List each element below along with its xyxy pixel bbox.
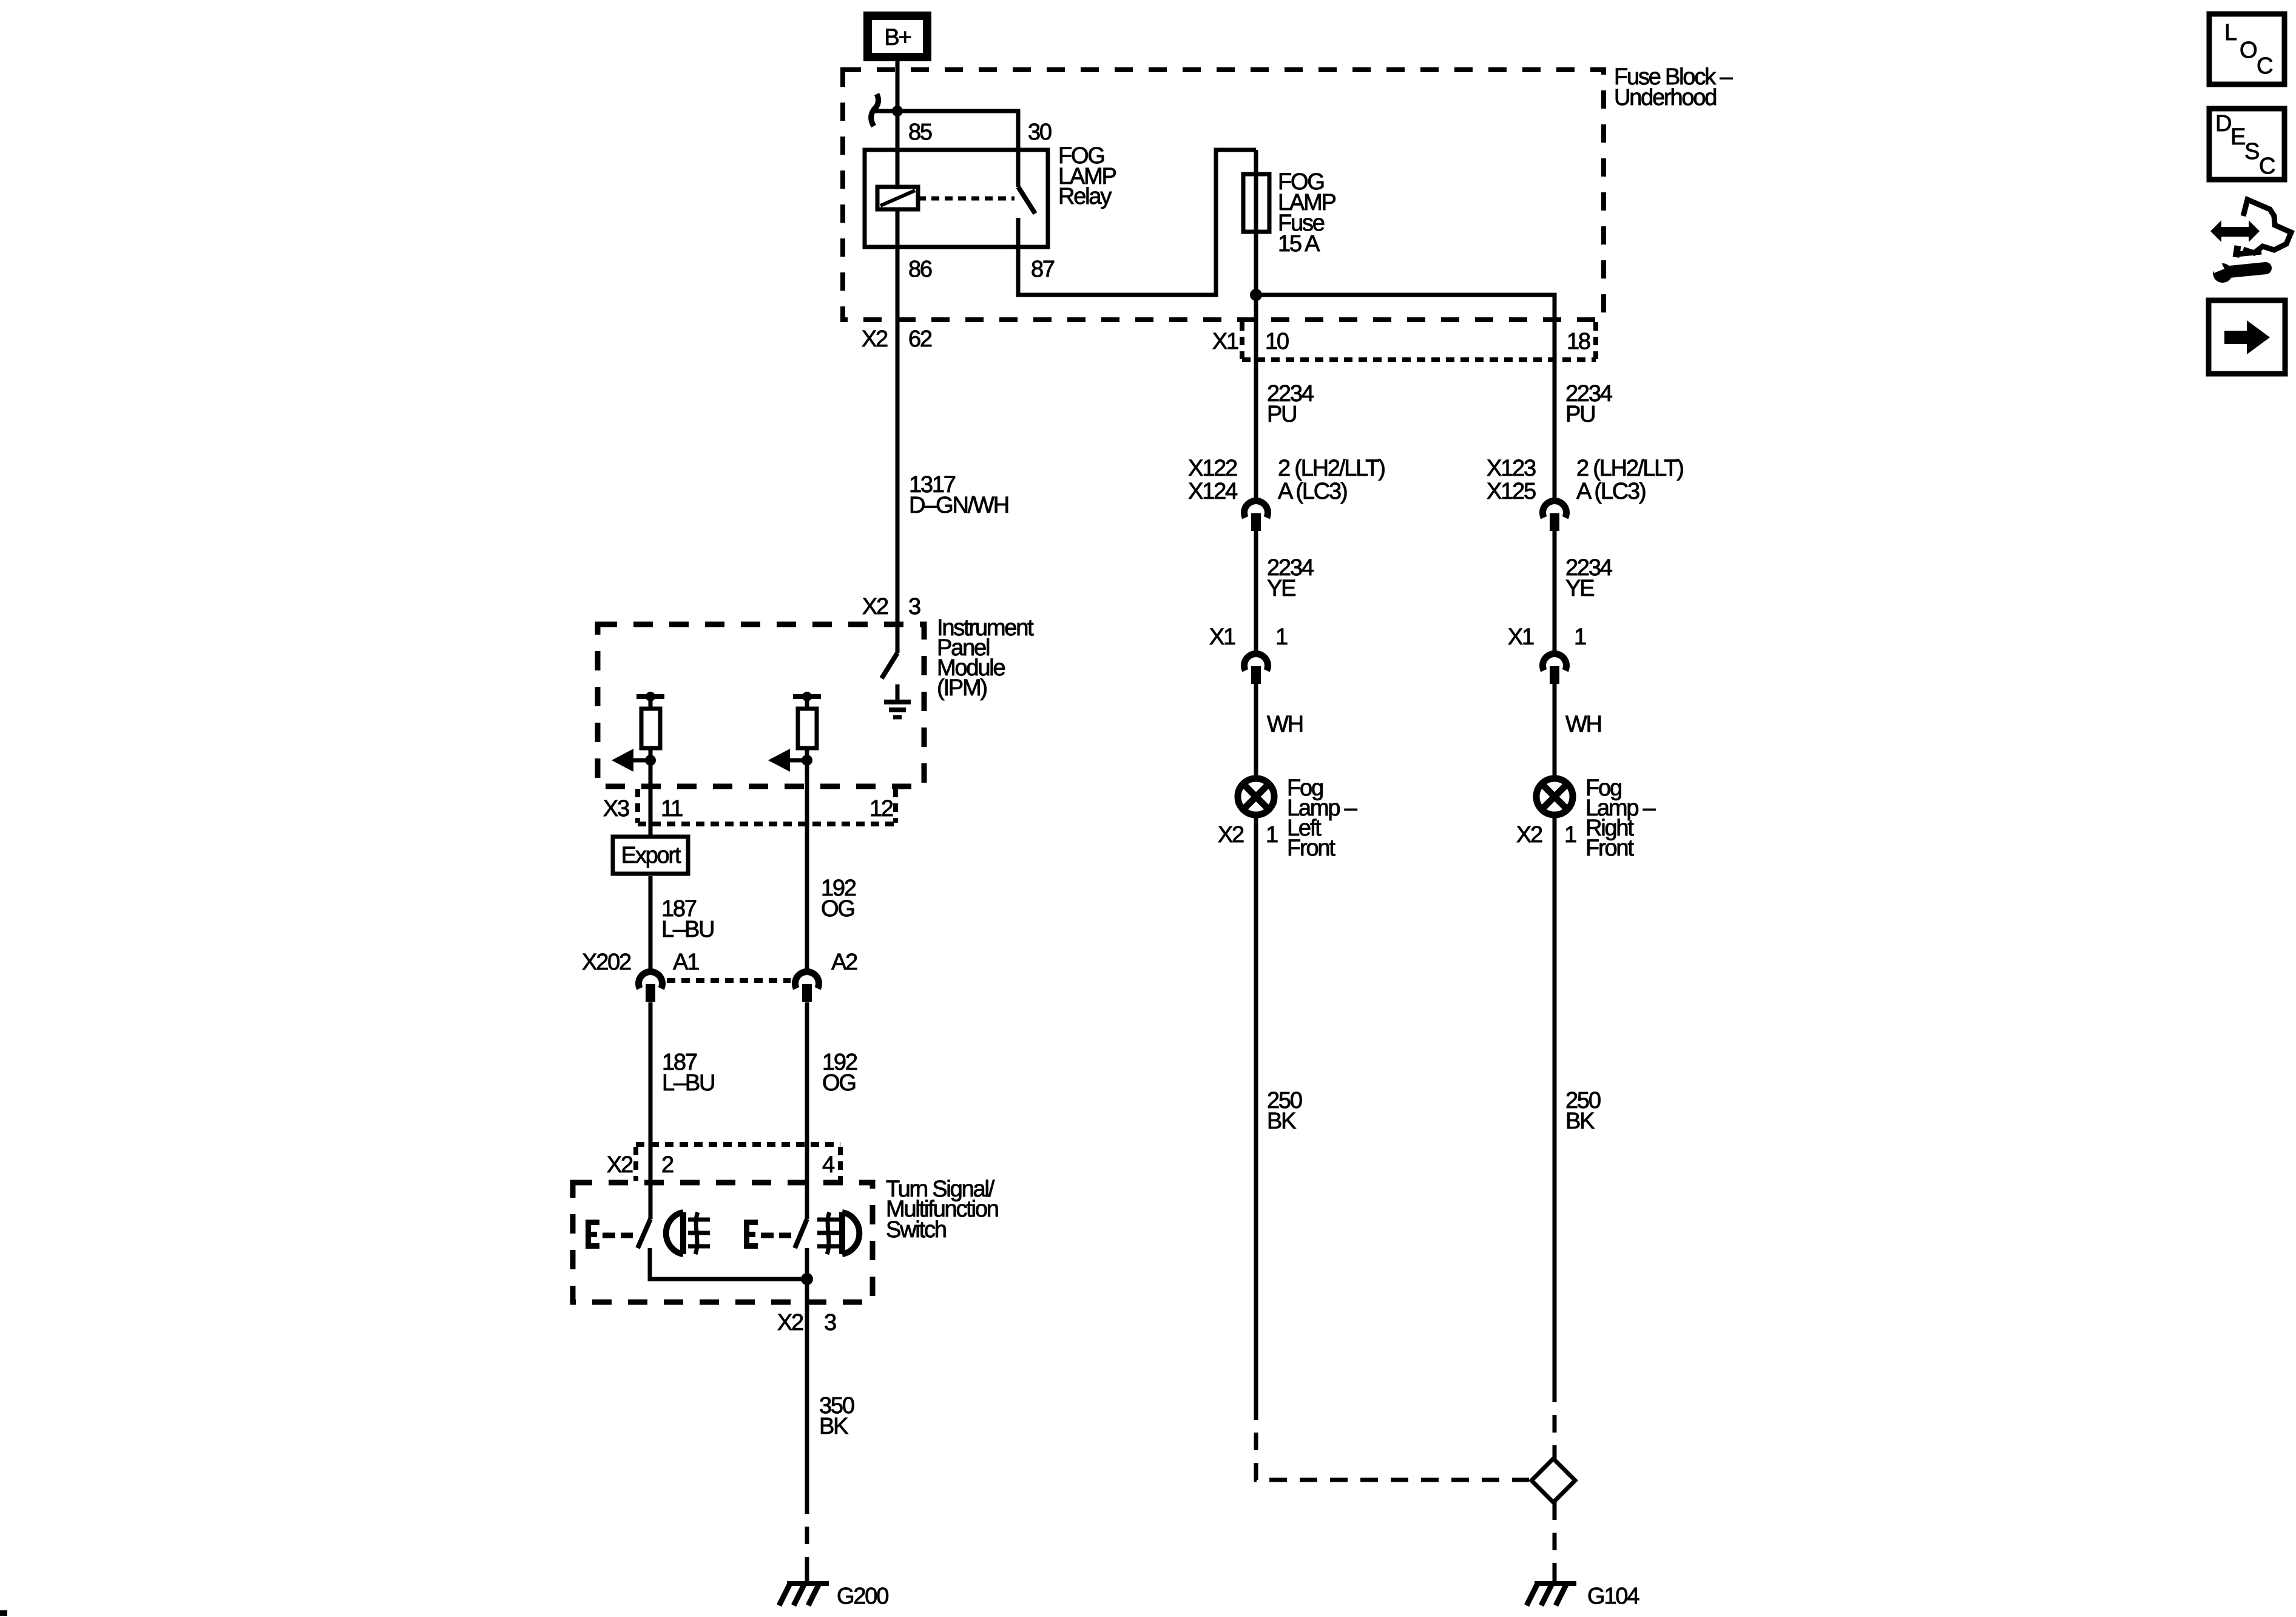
svg-text:C: C bbox=[2257, 53, 2272, 79]
svg-text:62: 62 bbox=[908, 326, 932, 352]
icon service clip bbox=[2236, 246, 2261, 257]
pin labels 2 (LH2/LLT) A (LC3) left front bbox=[1278, 456, 1385, 504]
icon service wrench bbox=[2210, 259, 2266, 283]
wire R2 to junction bbox=[805, 748, 809, 760]
svg-text:1: 1 bbox=[1574, 624, 1586, 650]
wire label 187 L-BU upper bbox=[661, 896, 714, 942]
connector labels X2 3 above IPM bbox=[862, 594, 920, 619]
switch blade left bbox=[638, 1219, 650, 1248]
wire label 192 OG upper bbox=[821, 876, 856, 922]
pin labels 2 (LH2/LLT) A (LC3) right front bbox=[1576, 456, 1683, 504]
junction node A bbox=[645, 755, 656, 766]
label Turn Signal/Multifunction Switch bbox=[886, 1176, 998, 1243]
dashed actuator link right bbox=[761, 1233, 791, 1238]
svg-text:Underhood: Underhood bbox=[1614, 85, 1716, 110]
connector X122/X124 left front bbox=[1244, 501, 1268, 531]
wire label 1317 D-GN/WH bbox=[909, 472, 1008, 518]
svg-text:C: C bbox=[2259, 154, 2275, 179]
connector labels X2 3 below switch bbox=[777, 1310, 836, 1335]
wire 250 BK right front bbox=[1553, 815, 1557, 1385]
svg-text:G200: G200 bbox=[837, 1584, 888, 1609]
svg-text:S: S bbox=[2244, 139, 2259, 164]
svg-text:PU: PU bbox=[1267, 402, 1296, 427]
svg-text:X3: X3 bbox=[603, 796, 629, 822]
svg-text:85: 85 bbox=[908, 120, 932, 145]
wire circuit 2234 PU left front bbox=[1254, 295, 1258, 499]
ground G104 bbox=[1527, 1574, 1576, 1605]
wire label 350 BK bbox=[819, 1393, 854, 1439]
connector labels X1 1 right front bbox=[1508, 624, 1586, 650]
connector row X3 pins 11 and 12 bbox=[603, 789, 898, 824]
fog lamp Left front bbox=[1238, 778, 1274, 815]
connector X202 dashed link bbox=[667, 978, 791, 983]
svg-text:WH: WH bbox=[1267, 712, 1303, 737]
svg-text:A (LC3): A (LC3) bbox=[1278, 479, 1347, 504]
fuse FOG LAMP Fuse 15 A bbox=[1243, 150, 1269, 295]
wire Export down to connector A1 bbox=[649, 876, 653, 970]
svg-text:BK: BK bbox=[1565, 1109, 1595, 1134]
svg-text:X2: X2 bbox=[1218, 822, 1244, 848]
label Instrument Panel Module (IPM) bbox=[937, 615, 1034, 701]
connector row X2 pins 2 and 4 bbox=[607, 1144, 840, 1181]
svg-text:3: 3 bbox=[824, 1310, 836, 1335]
svg-text:A (LC3): A (LC3) bbox=[1576, 479, 1646, 504]
label FOG LAMP Relay bbox=[1058, 143, 1116, 209]
power symbol B+ bbox=[863, 12, 931, 61]
svg-text:12: 12 bbox=[869, 796, 893, 822]
svg-text:X1: X1 bbox=[1209, 624, 1235, 650]
label Fuse Block - Underhood bbox=[1614, 64, 1733, 110]
instrument panel module IPM dashed box bbox=[598, 624, 924, 786]
svg-text:Switch: Switch bbox=[886, 1217, 946, 1243]
wire fuse output to right branch bbox=[1256, 295, 1555, 499]
connector X123/X125 right front bbox=[1543, 501, 1567, 531]
output arrow left from node B bbox=[768, 749, 807, 772]
wire circuit 2234 PU right front bbox=[1553, 295, 1557, 499]
connector labels X123 X125 bbox=[1487, 456, 1536, 504]
label Fog Lamp - Left Front bbox=[1287, 775, 1358, 861]
dashed wire left lamp to splice bbox=[1256, 1402, 1529, 1480]
svg-text:Relay: Relay bbox=[1058, 184, 1112, 209]
wire 250 BK left front bbox=[1254, 815, 1258, 1402]
svg-text:1: 1 bbox=[1564, 822, 1576, 848]
wire label 2234 PU right front bbox=[1565, 381, 1613, 427]
splice diamond bbox=[1531, 1459, 1575, 1502]
bus tap hook symbol bbox=[871, 94, 879, 126]
wire from B+ down to relay coil bbox=[896, 61, 900, 189]
svg-text:L: L bbox=[2224, 20, 2237, 46]
connector labels X1 1 left front bbox=[1209, 624, 1288, 650]
icon service double arrow bbox=[2210, 220, 2260, 242]
svg-text:X2: X2 bbox=[777, 1310, 803, 1335]
svg-text:X122: X122 bbox=[1188, 456, 1237, 481]
connector labels X2 1 right front bbox=[1516, 822, 1576, 848]
junction node B bbox=[802, 755, 812, 766]
svg-text:YE: YE bbox=[1565, 576, 1594, 601]
wire label 192 OG lower bbox=[822, 1050, 857, 1096]
relay coil-contact dashed link bbox=[918, 197, 1015, 201]
fog lamp symbol left bbox=[666, 1212, 710, 1254]
turn signal multifunction switch dashed box bbox=[573, 1183, 873, 1302]
fuse block underhood dashed box bbox=[843, 70, 1604, 320]
svg-text:D–GN/WH: D–GN/WH bbox=[909, 493, 1008, 518]
wire label 250 BK left front bbox=[1267, 1088, 1302, 1134]
svg-text:Front: Front bbox=[1287, 836, 1335, 861]
page artifact mark bbox=[0, 1610, 7, 1616]
output arrow left from node A bbox=[612, 749, 650, 772]
svg-text:WH: WH bbox=[1565, 712, 1601, 737]
junction node switch output bbox=[801, 1273, 813, 1285]
relay switch blade bbox=[1018, 187, 1035, 214]
svg-text:86: 86 bbox=[908, 257, 932, 282]
svg-text:X1: X1 bbox=[1508, 624, 1534, 650]
switch position E left bbox=[586, 1220, 599, 1249]
svg-text:10: 10 bbox=[1265, 329, 1289, 354]
icon service panel outline bbox=[2243, 200, 2291, 253]
svg-text:BK: BK bbox=[1267, 1109, 1296, 1134]
svg-text:X125: X125 bbox=[1487, 479, 1536, 504]
ground G200 bbox=[779, 1574, 829, 1605]
wire switch output down bbox=[805, 1279, 809, 1496]
svg-text:E: E bbox=[2230, 124, 2245, 150]
svg-text:2 (LH2/LLT): 2 (LH2/LLT) bbox=[1576, 456, 1683, 481]
svg-text:30: 30 bbox=[1028, 120, 1052, 145]
junction node at B+ feed bbox=[892, 106, 903, 116]
svg-text:OG: OG bbox=[821, 896, 854, 922]
wire R1 to junction bbox=[649, 748, 653, 760]
svg-text:3: 3 bbox=[908, 594, 920, 619]
svg-text:G104: G104 bbox=[1587, 1584, 1639, 1609]
relay lower contact wire pin 87 bbox=[1018, 150, 1256, 295]
wire junction to relay pin 30 bbox=[897, 111, 1018, 187]
wire label 2234 YE right front bbox=[1565, 555, 1613, 601]
svg-text:X123: X123 bbox=[1487, 456, 1536, 481]
dashed wire to G200 bbox=[805, 1496, 809, 1584]
switch blade right bbox=[795, 1219, 807, 1248]
dashed wire splice to G104 bbox=[1553, 1502, 1557, 1584]
relay coil bbox=[877, 187, 918, 209]
icon box LOC bbox=[2209, 14, 2284, 84]
svg-text:87: 87 bbox=[1031, 257, 1055, 282]
wire WH left front bbox=[1254, 684, 1258, 778]
connector labels X202 A1 A2 bbox=[582, 950, 857, 975]
switch lower contacts joining wire bbox=[650, 1248, 807, 1279]
svg-text:L–BU: L–BU bbox=[661, 917, 714, 942]
connector row X1 pins 10 and 18 bbox=[1212, 322, 1596, 360]
icon box DESC bbox=[2209, 109, 2284, 180]
wire node A down to Export bbox=[649, 760, 653, 835]
wire 2234 YE right front bbox=[1553, 531, 1557, 652]
svg-text:BK: BK bbox=[819, 1414, 848, 1439]
svg-text:Export: Export bbox=[621, 843, 681, 868]
svg-text:(IPM): (IPM) bbox=[937, 675, 987, 701]
wire 2234 YE left front bbox=[1254, 531, 1258, 652]
svg-text:O: O bbox=[2240, 38, 2257, 63]
connector labels X2 62 below relay bbox=[862, 326, 932, 352]
wire A1 down to switch bbox=[649, 1002, 653, 1219]
connector X1 pin 1 left front bbox=[1244, 654, 1268, 684]
svg-text:X1: X1 bbox=[1212, 329, 1238, 354]
svg-text:OG: OG bbox=[822, 1070, 856, 1096]
connector X202 pin A2 bbox=[795, 972, 819, 1002]
wire label 2234 PU left front bbox=[1267, 381, 1314, 427]
svg-text:A2: A2 bbox=[831, 950, 857, 975]
wire WH right front bbox=[1553, 684, 1557, 778]
wire node B down to connector A2 bbox=[805, 760, 809, 970]
svg-text:B+: B+ bbox=[884, 25, 911, 50]
IPM internal switch blade bbox=[882, 653, 897, 678]
dashed wire right lamp to splice bbox=[1553, 1385, 1557, 1459]
junction node below fuse bbox=[1250, 289, 1262, 301]
svg-text:4: 4 bbox=[822, 1152, 835, 1178]
svg-text:X2: X2 bbox=[607, 1152, 633, 1178]
svg-text:Front: Front bbox=[1585, 836, 1634, 861]
fog lamp symbol right bbox=[817, 1212, 859, 1254]
svg-text:2: 2 bbox=[661, 1152, 674, 1178]
fog lamp Right front bbox=[1536, 778, 1573, 815]
wire hook stub bbox=[873, 109, 897, 113]
svg-text:L–BU: L–BU bbox=[662, 1070, 714, 1096]
svg-text:1: 1 bbox=[1266, 822, 1278, 848]
svg-text:2 (LH2/LLT): 2 (LH2/LLT) bbox=[1278, 456, 1385, 481]
svg-text:X124: X124 bbox=[1188, 479, 1238, 504]
svg-text:YE: YE bbox=[1267, 576, 1295, 601]
svg-text:11: 11 bbox=[661, 796, 683, 822]
svg-text:PU: PU bbox=[1565, 402, 1595, 427]
connector X202 pin A1 bbox=[639, 972, 663, 1002]
icon box arrow bbox=[2209, 300, 2285, 374]
connector labels X122 X124 bbox=[1188, 456, 1238, 504]
Export option box bbox=[613, 837, 688, 874]
dashed actuator link left bbox=[603, 1233, 633, 1238]
svg-text:18: 18 bbox=[1567, 329, 1590, 354]
wire relay coil down to IPM bbox=[896, 209, 900, 653]
label Fog Lamp - Right Front bbox=[1585, 775, 1656, 861]
relay box FOG LAMP Relay bbox=[865, 150, 1048, 247]
svg-text:1: 1 bbox=[1275, 624, 1288, 650]
label FOG LAMP Fuse 15 A bbox=[1278, 169, 1336, 257]
svg-text:X202: X202 bbox=[582, 950, 631, 975]
wire A2 down to switch bbox=[805, 1002, 809, 1219]
relay pin labels bbox=[908, 120, 1055, 282]
resistor R2 in IPM bbox=[793, 692, 821, 748]
wire label 187 L-BU lower bbox=[662, 1050, 714, 1096]
svg-text:X2: X2 bbox=[1516, 822, 1542, 848]
svg-text:X2: X2 bbox=[862, 594, 888, 619]
switch position E right bbox=[744, 1220, 758, 1249]
svg-text:D: D bbox=[2215, 111, 2231, 137]
wire label 2234 YE left front bbox=[1267, 555, 1314, 601]
IPM internal ground bbox=[884, 684, 911, 717]
wire label 250 BK right front bbox=[1565, 1088, 1601, 1134]
connector labels X2 1 left front bbox=[1218, 822, 1278, 848]
resistor R1 in IPM bbox=[636, 692, 664, 748]
svg-text:A1: A1 bbox=[673, 950, 699, 975]
svg-text:X2: X2 bbox=[862, 326, 888, 352]
connector X1 pin 1 right front bbox=[1543, 654, 1567, 684]
svg-text:15 A: 15 A bbox=[1278, 231, 1320, 257]
